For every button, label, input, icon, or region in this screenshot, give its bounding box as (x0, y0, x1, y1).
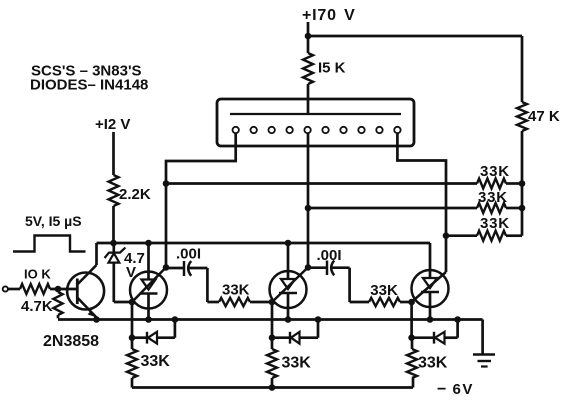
svg-text:DIODES– IN4148: DIODES– IN4148 (30, 77, 148, 94)
svg-text:33K: 33K (222, 282, 250, 299)
svg-text:I5 K: I5 K (318, 60, 346, 77)
svg-text:V: V (126, 264, 136, 281)
svg-text:2.2K: 2.2K (119, 186, 151, 203)
svg-text:33K: 33K (418, 354, 448, 371)
svg-text:33K: 33K (478, 189, 508, 206)
svg-text:.00I: .00I (176, 246, 201, 263)
svg-text:IO K: IO K (24, 267, 51, 282)
svg-text:6V: 6V (453, 381, 474, 398)
svg-text:−: − (437, 381, 446, 398)
svg-text:47 K: 47 K (528, 108, 560, 125)
svg-text:+I2 V: +I2 V (95, 116, 130, 133)
svg-text:4.7K: 4.7K (21, 298, 53, 315)
svg-text:33K: 33K (141, 353, 171, 370)
svg-text:33K: 33K (370, 282, 398, 299)
svg-text:+I70 V: +I70 V (302, 7, 356, 24)
svg-text:33K: 33K (480, 163, 510, 180)
svg-text:2N3858: 2N3858 (43, 333, 99, 350)
svg-text:33K: 33K (282, 355, 312, 372)
svg-text:5V, I5 µS: 5V, I5 µS (25, 213, 82, 229)
svg-text:33K: 33K (480, 215, 510, 232)
svg-text:.00I: .00I (317, 247, 342, 264)
